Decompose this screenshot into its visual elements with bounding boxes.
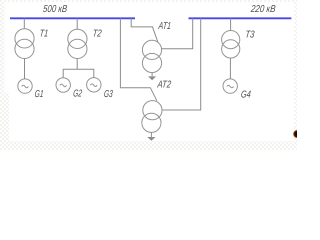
label AT2: [156, 79, 171, 90]
bus 220 kV: [189, 17, 292, 19]
wire bus500 to AT1: [131, 18, 158, 42]
svg-text:G3: G3: [103, 88, 113, 100]
transformer T3: [222, 30, 240, 58]
wire AT1 to bus220: [161, 18, 192, 49]
svg-text:G4: G4: [240, 88, 251, 99]
svg-text:AT2: AT2: [156, 79, 171, 90]
wire bus220 to T3: [230, 18, 232, 30]
cursor dot marker: [293, 130, 301, 138]
generator G2: [56, 78, 70, 92]
svg-text:AT1: AT1: [157, 20, 171, 32]
wire T3 to G4: [229, 58, 231, 79]
label G2: [73, 87, 83, 99]
bus 500 kV: [10, 17, 135, 19]
arrow output AT2: [147, 132, 155, 140]
wire bus500 to T2: [76, 18, 78, 29]
transformer T1: [15, 29, 34, 59]
transformer T2: [68, 29, 87, 58]
label 220 кВ: [249, 3, 276, 14]
wire bus500 to AT2: [120, 18, 156, 101]
wire bus500 to T1: [23, 18, 25, 29]
generator G3: [87, 78, 101, 92]
wire T2 to split bar: [76, 59, 78, 70]
svg-text:220 кВ: 220 кВ: [249, 3, 276, 14]
generator G4: [223, 79, 237, 93]
svg-text:500 кВ: 500 кВ: [43, 3, 68, 14]
svg-text:T3: T3: [245, 29, 255, 40]
svg-text:G2: G2: [73, 87, 83, 99]
label T3: [245, 29, 255, 40]
autotransformer AT2: [142, 101, 162, 133]
autotransformer AT1: [142, 40, 161, 72]
wire split bar: [63, 69, 94, 78]
arrow output AT1: [148, 73, 156, 81]
svg-text:T1: T1: [39, 28, 49, 39]
label G1: [34, 88, 44, 100]
label T1: [39, 28, 49, 39]
label G4: [240, 88, 251, 99]
label AT1: [157, 20, 171, 32]
svg-text:G1: G1: [34, 88, 44, 100]
label 500 кВ: [43, 3, 68, 14]
svg-text:T2: T2: [92, 28, 102, 39]
generator G1: [18, 79, 32, 93]
wire T1 to G1: [24, 59, 26, 80]
label T2: [92, 28, 102, 39]
label G3: [103, 88, 113, 100]
wire AT2 to bus220: [162, 18, 201, 110]
